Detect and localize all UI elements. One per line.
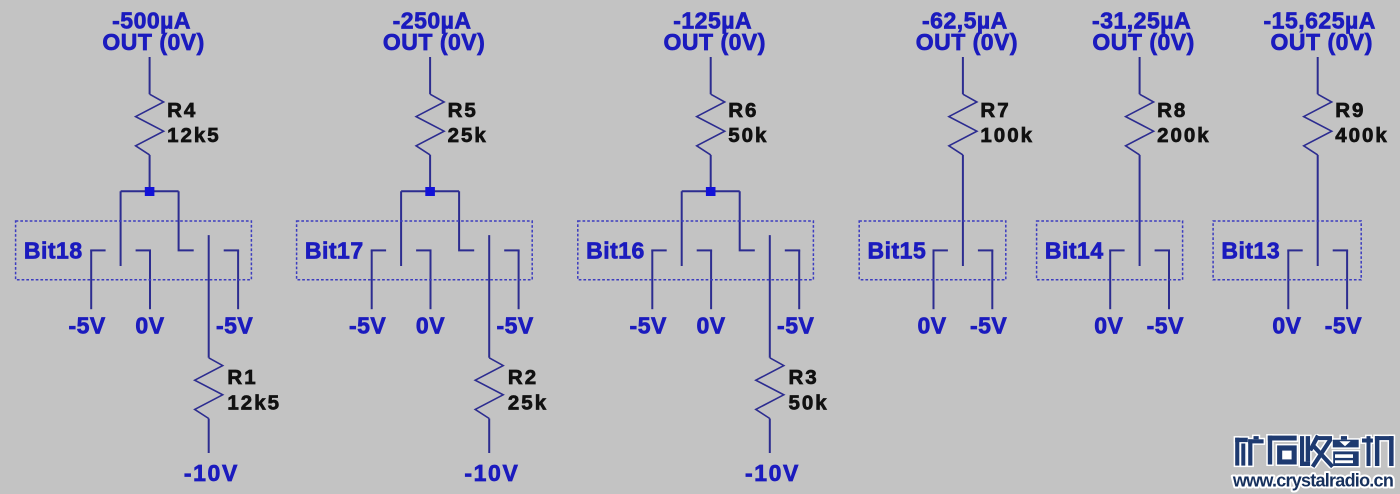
svg-text:Bit17: Bit17 bbox=[305, 238, 364, 264]
resistor R4 bbox=[136, 94, 164, 155]
svg-text:R9: R9 bbox=[1335, 99, 1365, 122]
switch Bit13 contact -5V bbox=[1333, 249, 1348, 251]
svg-text:R2: R2 bbox=[508, 366, 538, 389]
switch 1 contact 0V bbox=[697, 249, 712, 251]
svg-text:50k: 50k bbox=[789, 392, 829, 415]
resistor R9 bbox=[1304, 94, 1332, 155]
wire to lower resistor R1 bbox=[208, 235, 210, 358]
dashed box Bit16 bbox=[578, 221, 814, 280]
watermark logo 矿石收音机 bbox=[1235, 436, 1393, 466]
switch 2 contact -5V bbox=[224, 249, 239, 251]
svg-text:25k: 25k bbox=[508, 392, 548, 415]
wire node horizontal bar bbox=[401, 190, 459, 192]
wire resistor to node bbox=[710, 155, 712, 191]
wire to lower resistor R3 bbox=[769, 235, 771, 358]
wire resistor to node bbox=[429, 155, 431, 191]
wire from OUT to R8 bbox=[1139, 57, 1141, 94]
wire from OUT to R9 bbox=[1317, 57, 1319, 94]
switch Bit15 contact 0V bbox=[933, 249, 948, 251]
dashed box Bit14 bbox=[1037, 221, 1183, 280]
dashed box Bit15 bbox=[859, 221, 1006, 280]
svg-text:-5V: -5V bbox=[970, 313, 1007, 339]
switch Bit18 pole 1 wire bbox=[120, 191, 122, 266]
svg-text:0V: 0V bbox=[918, 313, 947, 339]
junction node square bbox=[425, 187, 435, 196]
svg-text:OUT (0V): OUT (0V) bbox=[1092, 29, 1194, 55]
svg-text:Bit15: Bit15 bbox=[868, 238, 927, 264]
resistor R7 bbox=[949, 94, 977, 155]
svg-text:-5V: -5V bbox=[496, 313, 533, 339]
svg-text:-10V: -10V bbox=[464, 460, 519, 486]
switch Bit14 contact 0V bbox=[1109, 249, 1124, 251]
switch 1 contact -5V bbox=[651, 249, 666, 251]
svg-text:12k5: 12k5 bbox=[167, 124, 221, 147]
svg-text:R1: R1 bbox=[227, 366, 257, 389]
switch Bit13 contact 0V bbox=[1287, 249, 1302, 251]
switch Bit17 pole 2 wire (L to node) bbox=[459, 191, 474, 250]
wire resistor to switch pole Bit15 bbox=[962, 155, 964, 266]
switch 1 contact -5V bbox=[371, 249, 386, 251]
resistor R8 bbox=[1126, 94, 1154, 155]
switch 1 contact -5V bbox=[90, 249, 105, 251]
svg-text:-5V: -5V bbox=[1325, 313, 1362, 339]
svg-text:www.crystalradio.cn: www.crystalradio.cn bbox=[1232, 470, 1393, 490]
svg-text:R5: R5 bbox=[448, 99, 478, 122]
svg-text:R7: R7 bbox=[980, 99, 1010, 122]
svg-text:0V: 0V bbox=[1272, 313, 1301, 339]
svg-text:0V: 0V bbox=[416, 313, 445, 339]
svg-text:50k: 50k bbox=[728, 124, 768, 147]
wire to lower resistor R2 bbox=[488, 235, 490, 358]
switch Bit15 contact -5V bbox=[978, 249, 993, 251]
svg-text:0V: 0V bbox=[1094, 313, 1123, 339]
switch Bit17 pole 1 wire bbox=[400, 191, 402, 266]
svg-text:OUT (0V): OUT (0V) bbox=[383, 29, 485, 55]
resistor R2 bbox=[475, 358, 503, 419]
svg-text:-5V: -5V bbox=[630, 313, 667, 339]
wire node horizontal bar bbox=[121, 190, 179, 192]
wire R1 to -10V bbox=[208, 419, 210, 454]
wire from OUT to R5 bbox=[429, 57, 431, 94]
switch 1 contact 0V bbox=[416, 249, 431, 251]
svg-text:OUT (0V): OUT (0V) bbox=[1271, 29, 1373, 55]
dashed box Bit17 bbox=[297, 221, 533, 280]
switch 1 contact 0V bbox=[136, 249, 151, 251]
svg-text:Bit13: Bit13 bbox=[1221, 238, 1280, 264]
junction node square bbox=[706, 187, 716, 196]
resistor R3 bbox=[756, 358, 784, 419]
svg-text:R8: R8 bbox=[1157, 99, 1187, 122]
switch 2 contact -5V bbox=[504, 249, 519, 251]
dashed box Bit13 bbox=[1213, 221, 1361, 280]
dashed box Bit18 bbox=[16, 221, 252, 280]
svg-text:-5V: -5V bbox=[349, 313, 386, 339]
wire from OUT to R6 bbox=[710, 57, 712, 94]
wire resistor to switch pole Bit14 bbox=[1139, 155, 1141, 266]
svg-text:Bit16: Bit16 bbox=[586, 238, 645, 264]
svg-text:25k: 25k bbox=[448, 124, 488, 147]
wire from OUT to R7 bbox=[962, 57, 964, 94]
svg-text:-5V: -5V bbox=[1147, 313, 1184, 339]
svg-text:12k5: 12k5 bbox=[227, 392, 281, 415]
wire node horizontal bar bbox=[682, 190, 740, 192]
switch Bit14 contact -5V bbox=[1155, 249, 1170, 251]
resistor R5 bbox=[416, 94, 444, 155]
svg-text:-5V: -5V bbox=[68, 313, 105, 339]
wire R3 to -10V bbox=[769, 419, 771, 454]
svg-text:OUT (0V): OUT (0V) bbox=[664, 29, 766, 55]
svg-text:Bit18: Bit18 bbox=[24, 238, 83, 264]
svg-text:Bit14: Bit14 bbox=[1045, 238, 1104, 264]
svg-text:OUT (0V): OUT (0V) bbox=[916, 29, 1018, 55]
svg-text:R3: R3 bbox=[789, 366, 819, 389]
svg-text:0V: 0V bbox=[135, 313, 164, 339]
svg-text:-10V: -10V bbox=[745, 460, 800, 486]
switch Bit16 pole 1 wire bbox=[681, 191, 683, 266]
switch Bit16 pole 2 wire (L to node) bbox=[740, 191, 755, 250]
switch 2 contact -5V bbox=[785, 249, 800, 251]
wire R2 to -10V bbox=[488, 419, 490, 454]
wire resistor to node bbox=[149, 155, 151, 191]
svg-text:-10V: -10V bbox=[184, 460, 239, 486]
svg-text:-5V: -5V bbox=[777, 313, 814, 339]
resistor R6 bbox=[697, 94, 725, 155]
switch Bit18 pole 2 wire (L to node) bbox=[179, 191, 194, 250]
svg-text:R6: R6 bbox=[728, 99, 758, 122]
svg-text:R4: R4 bbox=[167, 99, 197, 122]
svg-text:-5V: -5V bbox=[216, 313, 253, 339]
wire from OUT to R4 bbox=[149, 57, 151, 94]
svg-text:400k: 400k bbox=[1335, 124, 1389, 147]
resistor R1 bbox=[195, 358, 223, 419]
svg-text:0V: 0V bbox=[697, 313, 726, 339]
svg-text:200k: 200k bbox=[1157, 124, 1211, 147]
wire resistor to switch pole Bit13 bbox=[1317, 155, 1319, 266]
junction node square bbox=[145, 187, 155, 196]
svg-text:100k: 100k bbox=[980, 124, 1034, 147]
svg-text:OUT (0V): OUT (0V) bbox=[102, 29, 204, 55]
